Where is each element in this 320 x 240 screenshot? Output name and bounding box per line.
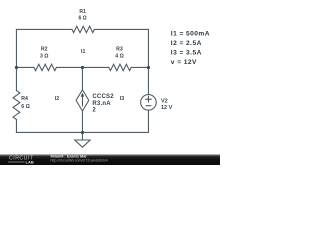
watermark logo lines <box>8 161 25 162</box>
wire right vertical lower <box>147 110 149 132</box>
wire top left lead <box>16 28 72 30</box>
svg-text:R2: R2 <box>41 47 48 53</box>
wire left vertical upper <box>15 29 17 90</box>
ground <box>75 140 90 147</box>
node B junction <box>81 66 84 69</box>
svg-text:LAB: LAB <box>26 159 34 164</box>
node C junction <box>147 66 150 69</box>
wire mid row right <box>131 66 148 68</box>
node D junction <box>81 131 84 134</box>
svg-text:I1 = 500mA: I1 = 500mA <box>171 31 210 38</box>
svg-text:R3: R3 <box>116 47 123 53</box>
CCCS2 arrow <box>81 93 85 107</box>
svg-text:R4: R4 <box>21 96 28 102</box>
svg-text:12 V: 12 V <box>161 105 173 111</box>
watermark bar <box>0 154 220 165</box>
svg-text:6 Ω: 6 Ω <box>21 104 30 110</box>
wire left vertical lower <box>15 120 17 133</box>
ground stub <box>81 132 83 140</box>
svg-text:I2 = 2.5A: I2 = 2.5A <box>171 40 202 47</box>
wire mid row left <box>16 66 34 68</box>
wire mid vertical to CCCS <box>81 67 83 89</box>
resistor R2 <box>34 64 56 70</box>
CCCS2 diamond <box>76 90 89 111</box>
wire CCCS to bottom <box>81 111 83 132</box>
resistor R3 <box>109 64 131 70</box>
svg-text:R3.nA: R3.nA <box>92 101 111 107</box>
wire mid row center <box>56 66 108 68</box>
svg-text:V2: V2 <box>161 99 168 105</box>
svg-text:I3 = 3.5A: I3 = 3.5A <box>171 50 202 57</box>
V2 minus <box>146 105 152 107</box>
svg-text:3 Ω: 3 Ω <box>40 53 49 59</box>
svg-text:v = 12V: v = 12V <box>171 59 197 66</box>
voltage source V2 <box>141 95 157 111</box>
wire top right lead <box>94 28 148 30</box>
V2 plus <box>145 96 152 106</box>
svg-text:R1: R1 <box>79 9 86 15</box>
resistor R1 <box>72 26 94 32</box>
svg-text:I2: I2 <box>55 96 59 102</box>
svg-text:4 Ω: 4 Ω <box>115 53 124 59</box>
node A junction <box>15 66 18 69</box>
svg-text:6 Ω: 6 Ω <box>79 16 87 22</box>
wire right vertical upper <box>147 29 149 94</box>
svg-text:I1: I1 <box>81 49 85 55</box>
svg-text:CCCS2: CCCS2 <box>92 94 114 100</box>
resistor R4 <box>13 91 20 120</box>
wire bottom <box>16 131 148 133</box>
svg-text:I3: I3 <box>120 96 124 102</box>
svg-text:http://circuitlab.com/c/72cand: http://circuitlab.com/c/72cands63rs4 <box>51 159 108 163</box>
